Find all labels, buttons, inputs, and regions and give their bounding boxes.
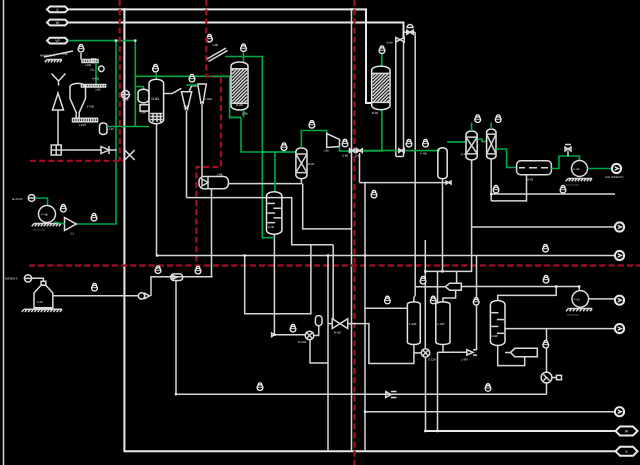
frame left border line	[3, 0, 5, 465]
bottom header y=394 with flag arrow	[176, 393, 547, 395]
green header to KO drum F-6B	[363, 150, 440, 152]
green column C-2 top	[490, 123, 492, 130]
pipe F-4B to compressor	[55, 222, 65, 224]
svg-text:F-41: F-41	[574, 297, 580, 301]
butterfly valve H-427	[328, 323, 332, 325]
pipe column C-1 bottoms south	[425, 160, 471, 349]
instrument above column D-B0	[473, 298, 479, 306]
instrument near line B	[207, 34, 213, 42]
pipe reactor to cyclone 1	[164, 88, 182, 93]
svg-text:W: W	[56, 21, 60, 25]
green column C-1 top	[471, 123, 473, 132]
green H-62 to LPG pump F-44	[551, 156, 579, 169]
staircase drop from header to valves	[245, 245, 311, 314]
svg-text:J-60: J-60	[62, 52, 68, 56]
pipe F-407 bottoms east	[443, 345, 467, 353]
pipe valve D-C10 down and east to riser	[310, 340, 328, 363]
green line cyclone2 top	[187, 84, 198, 86]
pipe cyclone1 to cyclone2	[189, 86, 198, 92]
svg-text:J-CB: J-CB	[85, 63, 91, 67]
vessel F-430	[407, 302, 420, 345]
green C-1 to C-2 crossover	[477, 139, 486, 142]
fittings on green header right	[399, 149, 405, 153]
green feed header from flag F-C	[68, 41, 241, 118]
long riser x=328	[327, 256, 329, 452]
pipe branch down to column D-B0 top	[498, 287, 557, 301]
green into column D-30 top	[274, 152, 276, 192]
junction dots	[123, 8, 125, 10]
svg-text:L-4B: L-4B	[123, 98, 129, 102]
instrument above column C-2	[495, 115, 501, 123]
instrument pair on green header	[406, 139, 412, 147]
svg-text:R-8D: R-8D	[152, 97, 160, 101]
pipe J-6B bottoms riser	[211, 189, 213, 277]
green feed to tank F-4B	[35, 198, 48, 206]
cyclone H-B5 no2	[198, 84, 207, 102]
green into column E-01	[263, 151, 296, 153]
pipe side feed to F-430	[365, 307, 407, 309]
svg-text:E-4D: E-4D	[461, 153, 467, 156]
strainer capsule right	[446, 283, 462, 290]
pipe cyclone1 bottoms header	[187, 198, 334, 245]
svg-text:,,,,,,,,,,,: ,,,,,,,,,,,	[567, 311, 579, 316]
instrument on header y255	[543, 244, 549, 252]
rotary pump bottom right	[541, 372, 552, 383]
reactor R-8D	[149, 79, 164, 123]
svg-text:H-62: H-62	[527, 177, 534, 181]
svg-text:H-B5: H-B5	[206, 97, 213, 101]
instrument near x=364	[371, 190, 377, 198]
header y=227 to east flag	[472, 226, 615, 228]
svg-text:F-OB: F-OB	[87, 105, 94, 109]
green overhead from cyclones to reactor R-06	[213, 75, 230, 77]
instrument above F-430	[385, 296, 391, 304]
green drop between conveyors	[95, 63, 97, 85]
header to east flag y=411.7	[365, 411, 615, 413]
green column E-01 overhead to compressor	[301, 131, 326, 148]
instrument on tank outlet	[92, 283, 98, 291]
rotary valve J-LL	[99, 66, 105, 72]
green stub into R-8D top	[155, 73, 157, 79]
LPG pump F-44 circle	[572, 161, 588, 177]
tank F-CL with trapezoid roof	[41, 281, 46, 285]
pipe F-41 to east flag	[589, 298, 615, 300]
off-page flag east y299	[615, 296, 624, 305]
compressor J trapezoid	[327, 134, 340, 148]
pipe cyclone1 bottoms down	[186, 110, 188, 197]
vessel F-407	[436, 302, 450, 345]
instrument above X-column E-01	[281, 143, 287, 151]
green branch into drum J-4A	[136, 87, 144, 90]
pipe J-6B outlet to column E-01	[228, 179, 301, 184]
pipe cyclone2 bottoms down	[201, 104, 203, 176]
reboiler exchanger	[511, 348, 538, 356]
actuator link	[314, 326, 319, 336]
green LPG product line to flag	[588, 168, 612, 170]
battery limit red dashed line RD1	[119, 0, 121, 161]
pipe drop x=333 from header 244.8	[332, 245, 334, 321]
svg-text:LPG PRODUCT: LPG PRODUCT	[605, 176, 624, 179]
svg-text:D-4L: D-4L	[355, 154, 361, 157]
drum H-62 horizontal	[517, 161, 552, 175]
green line over R-06 to main riser	[225, 57, 273, 238]
pipe from box to blower	[61, 149, 101, 151]
svg-text:E-44: E-44	[387, 40, 393, 44]
off-page flag X bottom	[616, 447, 638, 456]
pipe capsule stem down	[175, 281, 177, 395]
tank F-4B circle	[39, 206, 56, 223]
svg-text:KOSEN-X: KOSEN-X	[5, 276, 18, 280]
svg-text:J-0B: J-0B	[242, 111, 248, 115]
battery limit red dashed vertical x=354.5	[353, 0, 355, 465]
pipe D-30 bottoms down	[273, 234, 275, 334]
tray column D-30	[267, 192, 282, 235]
header y=328.6 from D-B0 to east flag	[505, 328, 615, 330]
instrument above reactor R-06	[241, 44, 247, 52]
off-page flag F-A top-left	[47, 7, 68, 13]
ground hatch under F-41	[568, 308, 592, 310]
capsule feed line west	[151, 277, 213, 296]
conveyor J-CB hatched bar	[82, 60, 98, 63]
svg-text:F-44: F-44	[574, 167, 580, 171]
off-page flag east y255	[615, 251, 624, 260]
pipe from valve H-427 east then south	[348, 324, 414, 364]
instrument on header y394 west	[257, 383, 263, 391]
pipe into J-6B from cyclone2	[201, 175, 203, 177]
svg-text:E-4B: E-4B	[342, 154, 348, 157]
header y=194 to east flag	[491, 193, 615, 195]
pipe overflow west stub	[415, 286, 446, 288]
compressor J-1 triangle	[65, 218, 77, 231]
feed pump circle 2	[24, 275, 31, 282]
control valve on branch at top	[404, 31, 416, 33]
instrument above compressor J	[309, 121, 315, 129]
relief valve above F-44	[565, 147, 571, 151]
column C-1 with X internals	[466, 131, 477, 160]
small blower symbol	[101, 147, 109, 154]
fitting E-44 on line B drop	[396, 37, 405, 42]
pipe vertical L2 from line A down-left	[124, 9, 615, 451]
drop from green manifold x=359.5	[359, 153, 361, 183]
pipe H-62 bottoms down	[491, 175, 526, 201]
feeder J-4B sloped	[207, 48, 226, 59]
ground hatch under F-44	[568, 178, 592, 180]
instrument on riser	[155, 266, 161, 274]
inline pump on tank outlet	[138, 293, 144, 299]
flare Y-piece	[52, 74, 66, 86]
feed pump small circle	[28, 195, 35, 202]
svg-text:R-01: R-01	[372, 111, 379, 115]
green stub into R-06 top	[243, 53, 245, 63]
svg-text:VF: VF	[55, 39, 60, 43]
svg-text:L-407: L-407	[461, 357, 469, 361]
svg-text:D-B0: D-B0	[492, 334, 499, 338]
pipe riser from header 328 to pump	[546, 329, 548, 372]
off-page flag east y227	[615, 222, 624, 231]
instrument left of valve D-C10	[290, 324, 296, 332]
instrument right of capsule	[195, 266, 201, 274]
svg-text:D-C10: D-C10	[298, 340, 307, 344]
ground hatch under F-4B	[34, 223, 61, 225]
svg-text:W: W	[625, 430, 629, 434]
instrument above compressor J-1	[60, 204, 66, 212]
white bottoms of column E-01 to east header	[303, 184, 352, 229]
pump F-41 circle	[572, 291, 589, 308]
instrument above F-407	[430, 296, 436, 304]
battery limit red dashed line RD2	[196, 0, 221, 266]
svg-text:J-1: J-1	[70, 232, 74, 236]
instrument on header y394 east	[485, 384, 491, 392]
svg-text:,,,,,,,,,,,,: ,,,,,,,,,,,,	[566, 181, 579, 186]
pipe column C-2 bottoms	[490, 159, 492, 201]
svg-text:J-4A: J-4A	[140, 111, 146, 115]
instrument on feeder	[78, 44, 84, 52]
off-page flag east y411	[615, 407, 624, 416]
pipe valve C-126 down to W header	[425, 357, 427, 431]
inline arrow L-407	[467, 350, 473, 355]
pipe F-430 bottoms to valve C-126	[414, 345, 421, 353]
pipe line B from flag F-B	[68, 23, 404, 38]
instrument on pump riser	[543, 340, 549, 348]
ground hatch under F-CL	[24, 308, 62, 310]
line crossing X symbol	[125, 150, 135, 160]
pipe blower to L2	[109, 149, 117, 151]
tank outlet header east	[53, 295, 139, 297]
instrument on C-2 bottoms	[493, 185, 499, 193]
instrument above reactor R-01	[379, 46, 385, 54]
off-page flag LPG product	[612, 164, 621, 173]
green C-2 outlet to drum H-62	[496, 149, 517, 168]
green riser branch to recycle compressor	[76, 41, 116, 224]
inline flag arrow on header	[386, 392, 391, 398]
instrument on compressor discharge	[342, 139, 348, 147]
flare stack line	[57, 110, 59, 145]
ground hatch under feed text	[47, 59, 62, 61]
pipe twin drops from fitting E-44	[395, 42, 397, 157]
instrument on overflow line	[543, 275, 549, 283]
crossed square box	[51, 145, 61, 155]
svg-text:J-8D: J-8D	[324, 150, 330, 153]
KO drum bottoms fitting	[446, 181, 451, 184]
instrument left of capsule	[420, 276, 426, 284]
svg-text:D-30: D-30	[268, 225, 275, 229]
reactor R-06 packed vessel	[231, 62, 248, 110]
svg-text:F-430: F-430	[409, 322, 417, 326]
reactor R-01 packed vessel	[372, 66, 390, 110]
drum J-15	[100, 123, 108, 135]
pipe capsule overflow to pump F-41	[461, 287, 579, 291]
strainer capsule C-1L	[171, 274, 183, 281]
column E-01 with X internals	[296, 148, 307, 179]
instrument on header y194	[560, 185, 566, 193]
svg-text:J-4B: J-4B	[212, 43, 218, 47]
instrument above column C-1	[475, 115, 481, 123]
svg-text:H-427: H-427	[334, 330, 342, 334]
off-page flag F-C third (green feed)	[47, 38, 68, 44]
flare triangle	[53, 93, 64, 110]
header from R-8D bottoms to east flag	[157, 255, 616, 257]
inline instrument on green header	[91, 213, 97, 221]
column C-2 with X internals	[487, 129, 496, 159]
pipe second feed to F-407 top	[437, 271, 439, 302]
conveyor J-150 under hopper	[73, 118, 98, 122]
svg-text:R-06: R-06	[236, 103, 243, 107]
svg-text:,,,,,,,,,,,: ,,,,,,,,,,,	[33, 226, 45, 231]
valve C-126	[421, 349, 429, 357]
tray column D-B0	[490, 301, 505, 346]
pipe long drop x=415 to vessel F-430	[414, 32, 415, 302]
battery limit red dashed main horizontal	[29, 264, 640, 266]
svg-text:E-01: E-01	[308, 162, 314, 166]
svg-text:J-15: J-15	[109, 127, 115, 131]
pipe KO drum bottoms down to overflow header	[442, 179, 444, 272]
pump on line L2	[122, 91, 130, 99]
long vertical x=365 lower	[364, 183, 366, 452]
green KO drum overhead to column C-1	[447, 141, 466, 143]
svg-text:F-4B: F-4B	[42, 213, 48, 217]
conveyor J-45 hatched bar	[81, 85, 105, 88]
globe valve D-C10 with actuator	[274, 334, 305, 336]
off-page flag W	[616, 427, 638, 436]
reboiler loop D-B0	[498, 346, 525, 366]
feed line to tank F-CL	[32, 278, 44, 281]
pipe vertical from line A at x=351.5	[351, 9, 353, 451]
hopper F-OB	[70, 83, 86, 118]
svg-text:B-XXXX: B-XXXX	[12, 197, 22, 201]
svg-text:J-45: J-45	[95, 88, 101, 92]
green line J-15 to reactor bottoms	[107, 126, 150, 128]
white line R-8D bottoms down	[156, 124, 158, 256]
twin fittings on green header	[349, 149, 355, 153]
green riser x=135 from header	[134, 41, 136, 127]
pipe line A from flag F-A	[68, 9, 372, 103]
off-page flag F-B second	[47, 20, 68, 26]
off-page flag east y328	[615, 324, 624, 333]
pipe riser from L-407 up to header	[476, 256, 478, 350]
header KO bottoms y=182.6	[360, 182, 452, 184]
svg-text:J-85: J-85	[183, 104, 189, 108]
header W y=431 to flag W	[425, 430, 615, 432]
svg-text:J-150: J-150	[79, 123, 86, 127]
green R-06 bottoms	[230, 110, 296, 152]
instrument above reactor R-8D	[153, 64, 159, 72]
svg-text:C-126: C-126	[428, 357, 436, 361]
pipe pump to bottom header	[546, 383, 548, 394]
svg-text:F-CL: F-CL	[37, 300, 44, 304]
box under J-4A	[140, 105, 149, 111]
feed conveyor slope J-60	[44, 51, 73, 57]
drum J-4A	[138, 89, 149, 103]
green compressor discharge to reactor R-01	[340, 110, 382, 151]
svg-text:H-CB: H-CB	[92, 77, 99, 81]
pipe capsule to F-407 top header	[443, 290, 456, 302]
svg-text:F-407: F-407	[438, 322, 446, 326]
svg-text:J-LL: J-LL	[90, 67, 96, 71]
instrument above cyclone 2	[189, 74, 195, 82]
cyclone H-85 no1	[181, 92, 191, 108]
svg-text:F-6B: F-6B	[421, 152, 427, 156]
KO drum F-6B	[438, 148, 447, 179]
